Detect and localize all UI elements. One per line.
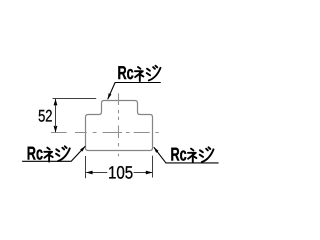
dim 52 dimension line lower arrow xyxy=(55,121,57,132)
label Rc-neji right xyxy=(171,144,214,165)
label left underline and leader arrow xyxy=(22,146,85,161)
dim 105 dimension line left segment xyxy=(86,172,107,174)
horizontal centerline xyxy=(51,132,159,134)
dim 52 dimension line upper arrow xyxy=(55,99,57,110)
svg-text:Rc: Rc xyxy=(27,143,43,164)
dim 52 extension line (top) xyxy=(53,98,97,100)
svg-text:Rc: Rc xyxy=(118,62,134,83)
label Rc-neji left xyxy=(27,143,70,164)
dim 105 left extension line xyxy=(85,156,87,178)
svg-text:52: 52 xyxy=(38,107,52,126)
svg-text:Rc: Rc xyxy=(171,144,187,165)
tee fitting body outline xyxy=(86,101,153,151)
dim 105 dimension line right segment xyxy=(134,172,153,174)
svg-text:105: 105 xyxy=(108,162,133,182)
label right underline and leader arrow xyxy=(154,147,219,163)
label top underline and leader arrow xyxy=(108,83,161,100)
dim 105 right extension line xyxy=(152,156,154,178)
dim 52 dimension line xyxy=(55,105,57,127)
label Rc-neji top xyxy=(118,62,161,83)
vertical centerline xyxy=(118,93,120,156)
